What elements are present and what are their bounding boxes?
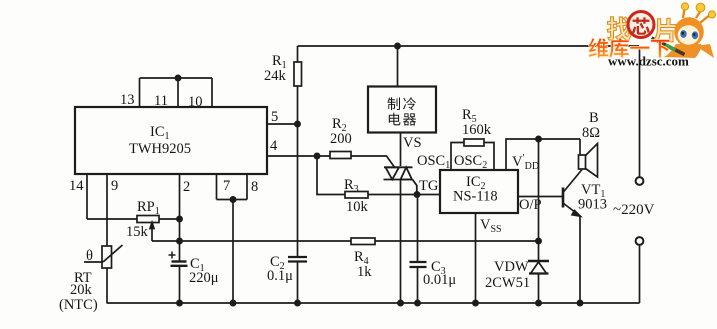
wire main mid row <box>152 240 351 242</box>
svg-text:1k: 1k <box>357 264 372 280</box>
svg-text:8Ω: 8Ω <box>582 125 600 141</box>
svg-text:R3: R3 <box>344 177 359 195</box>
watermark mascot <box>664 3 716 58</box>
svg-text:(NTC): (NTC) <box>59 297 98 313</box>
node top branch <box>395 43 400 48</box>
watermark red circle <box>628 12 654 38</box>
svg-text:160k: 160k <box>462 122 492 138</box>
transistor VT1 <box>562 188 565 208</box>
svg-text:9: 9 <box>111 178 118 194</box>
svg-text:2: 2 <box>183 179 190 195</box>
svg-text:14: 14 <box>69 178 84 194</box>
wire right rail upper <box>639 46 641 177</box>
svg-text:NS-118: NS-118 <box>453 189 498 205</box>
resistor R2 <box>330 152 351 159</box>
cooler box 制冷电器 <box>368 87 436 133</box>
zener VDW 2CW51 <box>528 260 549 262</box>
wire speaker drop <box>579 139 581 155</box>
pin11 stub <box>177 78 179 107</box>
pin13 stub <box>139 78 141 107</box>
svg-text:4: 4 <box>270 138 278 154</box>
speaker B <box>579 155 586 169</box>
wire triac top <box>400 133 402 167</box>
wire pins 13-11-10 <box>140 77 213 79</box>
node C3-ground <box>415 300 420 305</box>
wire bottom rail <box>107 302 640 304</box>
wire pin14 <box>86 174 88 219</box>
svg-text:IC1: IC1 <box>150 124 170 142</box>
wire R3 branch <box>317 156 345 195</box>
node triac-ground <box>398 300 403 305</box>
wire pin5 <box>267 123 298 125</box>
terminal T2 <box>636 237 644 245</box>
svg-text:220μ: 220μ <box>189 270 219 286</box>
wire pin7-8 to ground <box>232 200 234 304</box>
svg-text:9013: 9013 <box>578 197 607 213</box>
svg-text:θ: θ <box>86 248 93 264</box>
IC1 box TWH9205 <box>75 107 267 174</box>
svg-text:15k: 15k <box>126 224 149 240</box>
svg-text:OSC1: OSC1 <box>417 153 450 171</box>
svg-text:2CW51: 2CW51 <box>485 275 530 291</box>
node gate TG <box>414 192 419 197</box>
svg-text:7: 7 <box>223 178 230 194</box>
C1 plus <box>169 252 176 259</box>
triac VS <box>384 167 417 194</box>
wire pin2 column <box>179 174 181 261</box>
wire OSC2 riser <box>484 143 494 171</box>
wire cooler branch <box>397 46 399 87</box>
node pin2-wiper <box>177 238 182 243</box>
wire C3 column <box>417 195 419 263</box>
thermistor RT <box>102 246 112 268</box>
wire zener column <box>538 139 540 261</box>
node pin5 <box>295 121 300 126</box>
pin8 stub <box>246 174 248 200</box>
svg-text:10k: 10k <box>346 199 369 215</box>
wire VSS <box>475 213 477 303</box>
svg-text:0.01μ: 0.01μ <box>423 272 456 288</box>
node pin2-RP1 <box>177 216 182 221</box>
svg-text:24k: 24k <box>264 68 287 84</box>
watermark 找 <box>607 17 631 40</box>
node VDD <box>536 136 541 141</box>
node pin11 <box>175 75 180 80</box>
svg-text:11: 11 <box>154 93 168 109</box>
wire top rail <box>298 45 640 47</box>
capacitor C3 <box>410 261 427 263</box>
IC2 box NS-118 <box>440 170 518 213</box>
node pin7/8-ground <box>230 300 235 305</box>
wire pin7-8 <box>217 199 248 201</box>
wire OSC1 riser <box>451 143 464 171</box>
pin7 stub <box>216 174 218 200</box>
node VDW-ground <box>536 300 541 305</box>
wire pin4 <box>267 155 330 157</box>
wire R1 to C2 column <box>297 124 299 257</box>
node emitter-ground <box>577 300 582 305</box>
node C2-ground <box>295 300 300 305</box>
node C1-ground <box>177 300 182 305</box>
svg-text:20k: 20k <box>70 282 93 298</box>
svg-text:10: 10 <box>188 94 203 110</box>
cooler text 制冷电器 <box>388 97 417 125</box>
svg-text:5: 5 <box>271 109 278 125</box>
svg-text:~220V: ~220V <box>613 202 655 218</box>
svg-text:0.1μ: 0.1μ <box>267 268 293 284</box>
svg-text:200: 200 <box>330 131 352 147</box>
capacitor C1 <box>172 260 187 262</box>
wire O/P to base <box>518 196 563 198</box>
node pin7-8 <box>230 197 235 202</box>
watermark 维库一下 <box>588 38 670 58</box>
svg-text:OSC2: OSC2 <box>454 153 487 171</box>
watermark 芯 <box>632 17 650 34</box>
wire right rail lower <box>639 245 641 303</box>
resistor R5 <box>464 139 484 146</box>
wire pin9 / RT column <box>106 174 108 246</box>
svg-text:13: 13 <box>120 92 135 108</box>
svg-text:TG: TG <box>419 178 439 194</box>
svg-text:VDW: VDW <box>494 259 529 275</box>
svg-text:8: 8 <box>251 179 258 195</box>
watermark magnifier handle <box>652 38 685 55</box>
node zener top <box>536 238 541 243</box>
svg-text:VS: VS <box>403 135 422 151</box>
svg-text:TWH9205: TWH9205 <box>129 141 191 157</box>
wire triac bottom <box>400 180 402 303</box>
capacitor C2 <box>288 256 307 258</box>
pin10 stub <box>211 78 213 107</box>
svg-text:V′DD: V′DD <box>512 153 539 172</box>
node R3 tap <box>314 153 319 158</box>
svg-text:B: B <box>589 110 599 126</box>
RP1 wiper arrow <box>151 224 153 241</box>
svg-text:O/P: O/P <box>519 197 542 213</box>
terminal T1 <box>636 177 644 185</box>
svg-text:www.dzsc.com: www.dzsc.com <box>608 54 689 69</box>
watermark 片 <box>654 18 676 42</box>
node VSS-ground <box>473 300 478 305</box>
potentiometer RP1 <box>137 216 159 223</box>
resistor R3 <box>345 192 368 199</box>
svg-text:VSS: VSS <box>480 217 502 235</box>
resistor R4 <box>351 238 375 245</box>
resistor R1 <box>297 46 299 62</box>
wire VDD riser <box>506 139 580 170</box>
svg-text:RP1: RP1 <box>137 199 160 217</box>
wire RP1 row <box>87 218 137 220</box>
